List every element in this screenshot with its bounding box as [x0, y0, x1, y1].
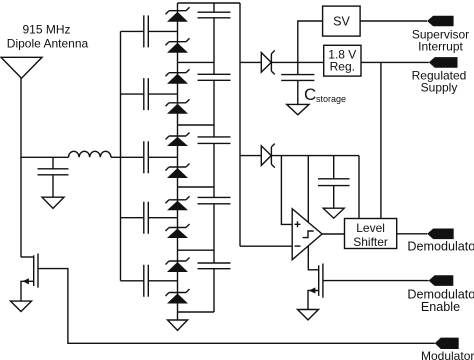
diode D9 [166, 258, 190, 273]
ground diode chain [168, 320, 188, 330]
wire SV to terminal [360, 20, 427, 22]
ground antenna shunt [42, 197, 64, 208]
inductor L1 [69, 151, 111, 157]
source lead [308, 291, 319, 310]
svg-text:storage: storage [316, 94, 346, 104]
wire diode chain vertical [177, 3, 179, 320]
svg-text:Interrupt: Interrupt [418, 39, 463, 53]
terminal Demodulator [427, 229, 454, 240]
diode D4 [166, 99, 190, 114]
svg-text:915 MHz: 915 MHz [22, 23, 70, 37]
wire row2 right [178, 61, 215, 63]
capacitor C9 [198, 197, 231, 203]
wire bus to envelope diode [240, 155, 261, 157]
wire comparator output [322, 233, 344, 235]
transistor Q1 modulation FET [21, 254, 38, 302]
svg-text:Modulator: Modulator [421, 349, 474, 360]
capacitor C_env [318, 156, 350, 209]
antenna [1, 57, 42, 78]
terminal Regulated Supply [429, 57, 458, 68]
wire row1 left [121, 30, 178, 32]
capacitor C8 [198, 137, 231, 144]
capacitor C7 [198, 74, 231, 80]
diode D10 [166, 289, 190, 304]
terminal Modulator [435, 338, 459, 349]
pin plus [295, 221, 301, 227]
wire row7 left [121, 217, 178, 219]
ground C_storage [287, 104, 309, 114]
wire bus to supply diode [240, 61, 261, 63]
wire gate Q2 to demodulator enable [323, 280, 429, 282]
capacitor C6 [198, 12, 231, 18]
diode D1 [166, 7, 190, 22]
diode D6 [166, 164, 190, 179]
wire antenna feed vertical [20, 78, 22, 257]
svg-text:Supply: Supply [421, 81, 458, 95]
body arrow [23, 278, 29, 284]
ground Q1 [11, 301, 32, 311]
diode D12 envelope [261, 144, 275, 168]
level shifter U4 box [345, 219, 397, 249]
svg-text:SV: SV [333, 15, 350, 29]
svg-text:Reg.: Reg. [330, 60, 355, 74]
svg-text:Level: Level [356, 221, 385, 235]
wire row6 right [178, 186, 215, 188]
ground Q2 [298, 310, 319, 320]
wire row8 right [178, 249, 215, 251]
svg-text:C: C [304, 85, 316, 104]
diode D2 [166, 38, 190, 53]
wire level shifter to demodulator terminal [397, 233, 428, 235]
wire supply rail [271, 61, 323, 63]
wire top rail [178, 2, 241, 4]
svg-text:Demodulator: Demodulator [407, 240, 474, 254]
capacitor C1 [144, 15, 149, 47]
pin minus [295, 245, 301, 247]
drain lead [21, 256, 34, 258]
svg-text:Dipole Antenna: Dipole Antenna [7, 37, 89, 51]
capacitor C5 [144, 265, 149, 297]
capacitor C4 [144, 202, 149, 234]
diode D7 [166, 196, 190, 210]
supervisor U2 box SV [323, 6, 361, 36]
ground C_env [323, 208, 344, 218]
svg-text:Enable: Enable [421, 300, 460, 314]
wire envelope to level shifter [358, 156, 360, 219]
wire feed to pump cap [111, 156, 144, 158]
wire bottom node right [178, 311, 215, 313]
capacitor C10 [198, 263, 231, 269]
wire regulated supply to level shifter [380, 62, 382, 218]
wire bus to comparator minus input [240, 245, 292, 247]
body arrow [309, 287, 315, 293]
capacitor C2 [144, 78, 149, 110]
wire envelope to demod FET drain [308, 156, 318, 270]
wire feed row [21, 156, 69, 158]
channel bar [318, 265, 320, 296]
transistor Q2 demod enable FET [308, 264, 323, 310]
diode D11 supply [261, 50, 275, 74]
wire right cap column [213, 3, 215, 312]
capacitor C3 [144, 141, 149, 173]
wire row5 cap to chain [148, 156, 177, 158]
wire row9 left [121, 280, 178, 282]
capacitor antenna shunt [38, 157, 69, 197]
wire SV branch [298, 21, 323, 62]
node label 915 MHz Dipole Antenna [7, 23, 89, 51]
op-amp U1 comparator [292, 209, 322, 260]
terminal Demodulator Enable [429, 275, 454, 286]
diode D8 [166, 224, 190, 238]
wire right output bus [239, 3, 241, 246]
diode D3 [166, 69, 190, 84]
wire row4 right [178, 124, 215, 126]
wire gate Q1 to modulator terminal [38, 269, 435, 344]
hysteresis symbol [303, 231, 314, 238]
value label C_storage [304, 85, 346, 104]
source lead [21, 281, 34, 301]
terminal Supervisor Interrupt [427, 16, 454, 27]
diode D5 [166, 133, 190, 147]
gate bar [37, 254, 39, 288]
wire envelope rail [271, 155, 359, 157]
wire left RF bus [120, 31, 122, 280]
regulator U3 box 1.8V [324, 45, 361, 76]
wire row3 left [121, 93, 178, 95]
wire regulator output [361, 61, 429, 63]
svg-text:Shifter: Shifter [353, 235, 388, 249]
gate bar [322, 264, 324, 298]
capacitor C_storage [281, 62, 314, 104]
wire envelope to comparator plus [281, 156, 292, 225]
channel bar [33, 255, 35, 286]
